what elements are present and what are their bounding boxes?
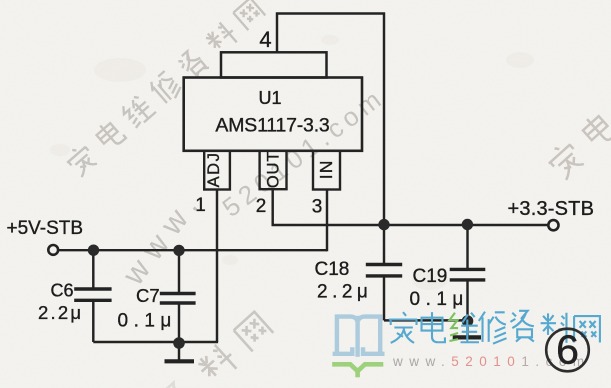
wire C6 bottom xyxy=(92,302,94,343)
net label +5V-STB xyxy=(7,218,84,239)
svg-text:IN: IN xyxy=(316,159,336,179)
op-amp U1 body AMS1117-3.3 xyxy=(184,78,362,151)
wire pin1 ADJ down to ground rail xyxy=(216,190,218,343)
ground left xyxy=(165,359,195,363)
wire top loop pin4 to output rail xyxy=(277,14,384,225)
logo hanzi blue 家电维修资料网 xyxy=(389,311,600,344)
node +5V-STB input terminal xyxy=(48,245,58,255)
wire C7 top xyxy=(178,250,180,292)
U1 value label AMS1117-3.3 xyxy=(215,114,329,136)
node junction +5V rail / C7 xyxy=(173,245,184,256)
wire +5V rail xyxy=(58,249,327,251)
circled number 6 xyxy=(546,327,589,373)
node junction +3.3V rail / C19 xyxy=(462,219,473,230)
svg-text:2.2μ: 2.2μ xyxy=(317,282,372,303)
wire C6 top xyxy=(92,250,94,287)
svg-text:C7: C7 xyxy=(136,285,160,306)
svg-text:OUT: OUT xyxy=(264,151,282,188)
wire C19 bottom xyxy=(466,282,468,321)
C7 value 0.1u xyxy=(118,311,177,332)
svg-text:0.1μ: 0.1μ xyxy=(118,311,177,332)
C19 value 0.1u xyxy=(410,289,469,310)
U1 pin box ADJ xyxy=(204,151,230,190)
svg-text:3: 3 xyxy=(312,197,323,218)
svg-text:+3.3-STB: +3.3-STB xyxy=(508,198,595,220)
svg-text:+5V-STB: +5V-STB xyxy=(7,218,84,239)
node junction +3.3V rail / C18 / pin4 xyxy=(378,219,389,230)
node junction ground rail / C19 xyxy=(462,315,474,327)
pin label IN xyxy=(316,159,336,179)
watermark diagonal hanzi bottom-center xyxy=(159,310,275,388)
C6 value 2.2u xyxy=(38,302,83,323)
logo url www.520101.com xyxy=(392,354,591,369)
svg-text:ADJ: ADJ xyxy=(205,152,223,188)
pin 2 number xyxy=(256,196,267,217)
U1 tab pin 4 xyxy=(221,52,327,77)
watermark diagonal url www.520101.com xyxy=(115,81,390,292)
pin 1 number xyxy=(195,195,206,216)
svg-text:1: 1 xyxy=(195,195,206,216)
capacitor C6 xyxy=(74,289,111,300)
svg-text:C6: C6 xyxy=(51,281,74,301)
ground right xyxy=(453,335,481,339)
C18 value 2.2u xyxy=(317,282,372,303)
pin 4 label xyxy=(259,27,271,52)
svg-text:4: 4 xyxy=(259,27,271,52)
svg-text:0.1μ: 0.1μ xyxy=(410,289,469,310)
C19 reference label xyxy=(413,266,448,287)
svg-text:6: 6 xyxy=(556,327,579,373)
wire pin3 IN down to +5V rail xyxy=(326,190,328,252)
node junction +5V rail / C6 xyxy=(88,245,99,256)
svg-text:U1: U1 xyxy=(258,88,281,108)
svg-text:2.2μ: 2.2μ xyxy=(38,302,83,323)
node +3.3-STB output terminal xyxy=(548,220,558,230)
C6 reference label xyxy=(51,281,74,301)
wire ground stub right xyxy=(466,320,468,335)
pin label ADJ xyxy=(205,152,223,188)
watermark diagonal hanzi line top-left xyxy=(63,0,267,179)
wire bottom-left ground rail xyxy=(93,341,218,343)
node junction ground rail / C7 xyxy=(173,337,185,349)
wire pin2 OUT to output rail xyxy=(273,189,549,225)
capacitor C19 xyxy=(450,269,486,280)
U1 reference label xyxy=(258,88,281,108)
C7 reference label xyxy=(136,285,160,306)
U1 pin box OUT xyxy=(260,151,287,189)
wire C18 top xyxy=(383,225,385,263)
logo book icon xyxy=(335,317,383,375)
wire ground stub left xyxy=(178,342,180,360)
logo green ribbon xyxy=(335,364,382,375)
U1 pin box IN xyxy=(313,151,340,190)
svg-text:C19: C19 xyxy=(413,266,448,287)
pin label OUT xyxy=(264,151,282,188)
pin 3 number xyxy=(312,197,323,218)
wire C7 bottom xyxy=(178,304,180,342)
svg-text:AMS1117-3.3: AMS1117-3.3 xyxy=(215,114,329,136)
capacitor C7 xyxy=(160,294,196,304)
watermark diagonal hanzi right edge xyxy=(544,79,611,181)
svg-text:2: 2 xyxy=(256,196,267,217)
svg-text:C18: C18 xyxy=(315,259,350,280)
net label +3.3-STB xyxy=(508,198,595,220)
capacitor C18 xyxy=(366,265,402,276)
wire C19 top xyxy=(466,225,468,268)
wire bottom-right ground rail xyxy=(384,319,468,321)
wire C18 bottom xyxy=(383,278,385,321)
C18 reference label xyxy=(315,259,350,280)
